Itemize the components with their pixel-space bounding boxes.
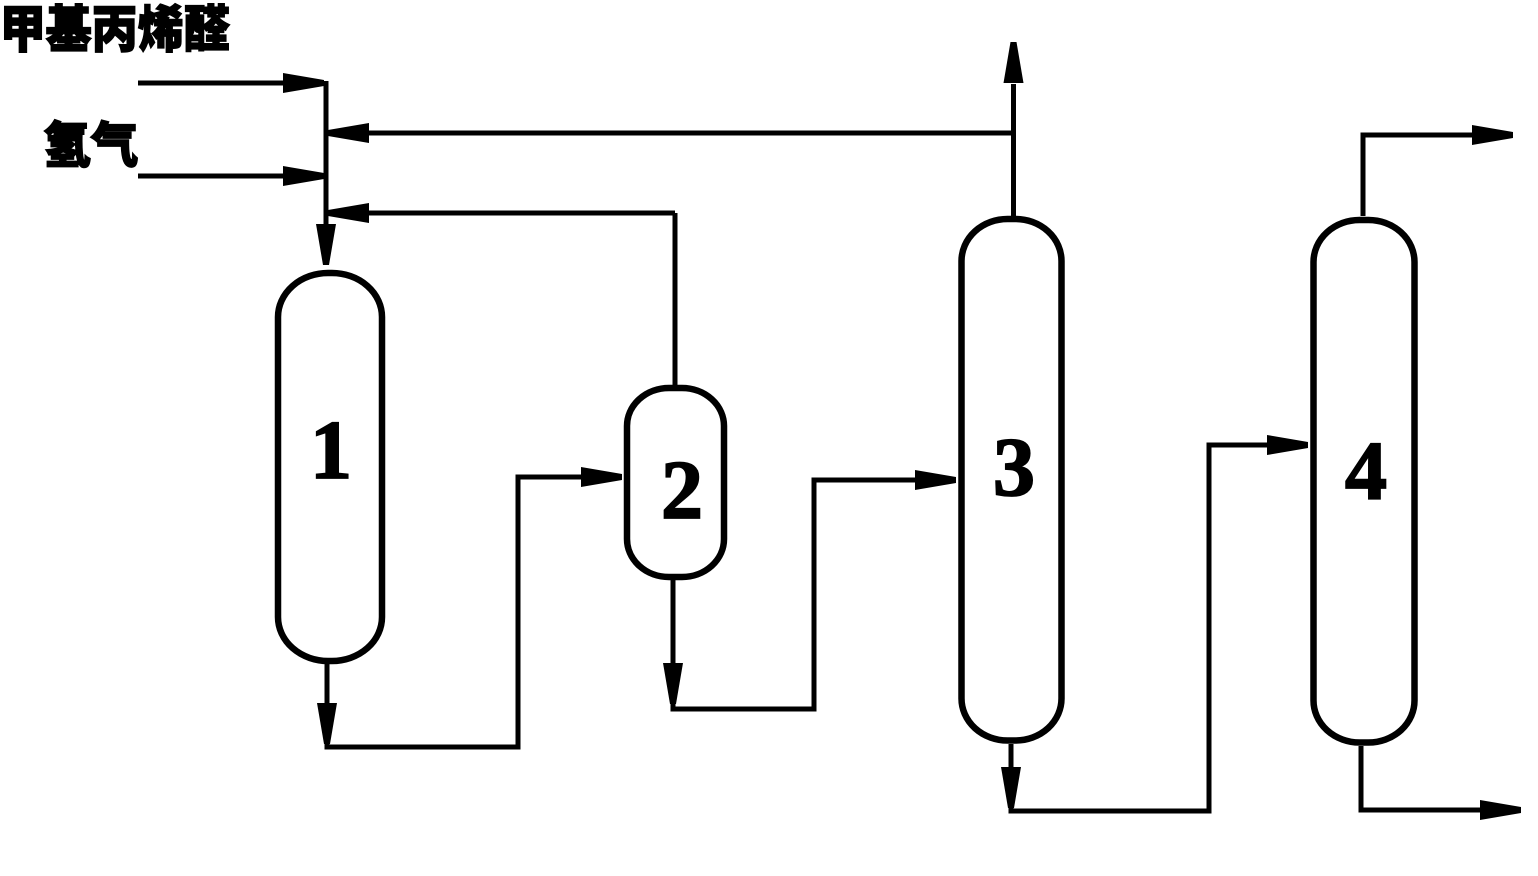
wire vessel 4 bottoms product out [1361, 746, 1521, 820]
vessel 2 [627, 388, 724, 577]
label 氢气 (hydrogen feed) [44, 120, 137, 168]
svg-text:1: 1 [310, 404, 352, 497]
wire vessel 1 bottoms to vessel 2 [317, 467, 622, 747]
label 甲基丙烯醛 (methacrolein feed) [5, 4, 230, 53]
wire methacrolein feed [138, 73, 324, 93]
vessel 4 [1314, 220, 1415, 743]
svg-text:4: 4 [1345, 425, 1387, 518]
wire recycle from vessel 2 top to junction [328, 203, 675, 385]
wire vessel 2 bottoms to vessel 3 [663, 470, 956, 709]
wire hydrogen feed [138, 166, 324, 186]
wire vessel 3 vent riser [1004, 42, 1024, 216]
wire vessel 4 overhead product out [1363, 125, 1513, 216]
wire vessel 3 bottoms to vessel 4 [1001, 435, 1308, 811]
svg-text:2: 2 [661, 444, 703, 537]
vessel 3 [962, 219, 1062, 741]
wire recycle from vessel 3 top to junction [328, 123, 1014, 216]
svg-text:3: 3 [993, 421, 1035, 514]
wire junction riser into vessel 1 [316, 81, 336, 265]
vessel 1 [278, 273, 382, 661]
